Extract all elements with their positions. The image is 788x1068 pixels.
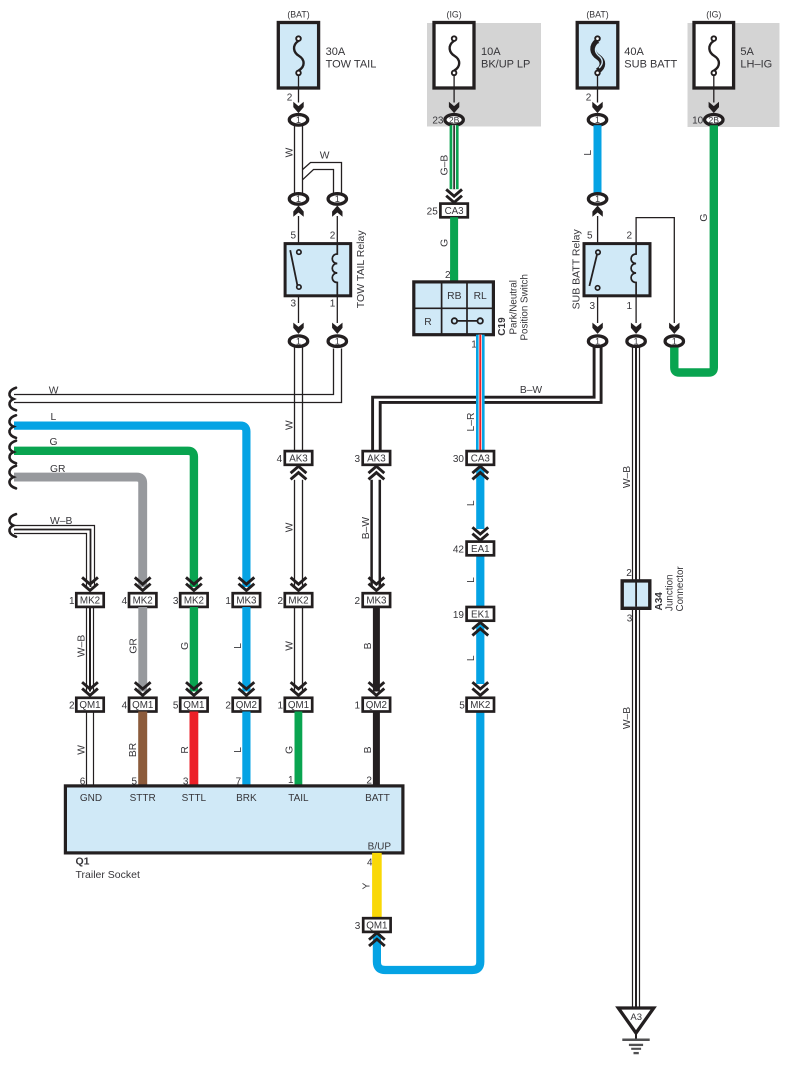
svg-text:1: 1 <box>296 115 301 125</box>
connector MK2 col2 <box>129 593 156 607</box>
svg-text:BK/UP LP: BK/UP LP <box>481 59 530 71</box>
connector QM1 col1 <box>76 698 103 712</box>
chevron up below CA3 30 <box>472 466 488 479</box>
svg-text:A34: A34 <box>654 592 665 611</box>
wire fuse 5A to connector <box>713 75 715 103</box>
svg-text:B/UP: B/UP <box>368 842 392 853</box>
svg-text:1: 1 <box>277 701 283 712</box>
svg-text:1: 1 <box>225 596 231 607</box>
svg-text:3: 3 <box>589 301 595 312</box>
break symbol L <box>9 415 16 438</box>
svg-text:L–R: L–R <box>466 413 477 432</box>
svg-text:QM1: QM1 <box>132 700 153 711</box>
svg-text:GND: GND <box>80 793 102 804</box>
svg-text:SUB BATT: SUB BATT <box>624 59 677 71</box>
connector CA3 pin 30 <box>467 451 494 465</box>
wire L MK3 to QM2 col4 <box>242 607 250 692</box>
svg-text:2: 2 <box>225 701 231 712</box>
svg-text:BR: BR <box>128 743 139 757</box>
svg-text:1: 1 <box>672 336 677 346</box>
svg-text:EA1: EA1 <box>471 544 490 555</box>
svg-text:3: 3 <box>355 454 361 465</box>
chevron into QM1 4 <box>135 682 151 695</box>
wire G-B fuse 10A to connector CA3 <box>450 125 459 189</box>
svg-text:EK1: EK1 <box>471 609 490 620</box>
svg-text:RB: RB <box>447 291 461 302</box>
wire G connector CA3 to park/neutral switch <box>450 217 458 282</box>
svg-text:3: 3 <box>290 299 296 310</box>
svg-text:L: L <box>466 500 477 506</box>
fuse 40A SUB BATT <box>577 23 618 89</box>
connector QM2 col4 <box>233 698 260 712</box>
svg-text:B: B <box>363 746 374 753</box>
svg-text:1: 1 <box>330 299 336 310</box>
wire relay pin 2 lead <box>336 216 338 244</box>
wire sub batt relay pin 5 lead <box>597 216 599 244</box>
svg-text:1: 1 <box>69 596 75 607</box>
chevron up below AK3 4 <box>291 466 307 479</box>
chevron into MK2 3 <box>186 577 202 590</box>
wire G fuse 5A to oval 1 <box>674 125 714 372</box>
wire G MK2 to QM1 col3 <box>190 607 198 692</box>
svg-text:G: G <box>440 239 451 247</box>
label Junction Connector <box>665 566 686 612</box>
connector oval 1 sub batt relay pin 5 <box>588 194 606 205</box>
relay TOW TAIL Relay <box>285 244 351 296</box>
arrow up into oval pin 2 tow tail relay <box>332 206 342 217</box>
svg-text:1: 1 <box>595 336 600 346</box>
svg-text:1: 1 <box>595 194 600 204</box>
wire sub batt relay pin 2 loop <box>636 218 674 323</box>
value label 10A BK/UP LP <box>481 46 530 71</box>
svg-text:MK2: MK2 <box>133 596 153 607</box>
svg-text:GR: GR <box>129 638 140 653</box>
value label 5A LH-IG <box>740 46 772 71</box>
connector MK3 col4 <box>233 593 260 607</box>
svg-text:25: 25 <box>427 206 439 217</box>
wire W QM1 to socket GND <box>87 712 94 787</box>
svg-text:3: 3 <box>173 596 179 607</box>
arrow into connector 1 <box>592 102 602 113</box>
connector QM2 col6 <box>363 698 390 712</box>
wire W AK3 to MK2 col5 <box>295 480 303 587</box>
wire W-B MK2 to QM1 col1 <box>87 607 94 692</box>
connector MK2 col7 <box>467 698 494 712</box>
value label 40A SUB BATT <box>624 46 677 71</box>
svg-text:QM2: QM2 <box>236 700 257 711</box>
svg-text:AK3: AK3 <box>367 453 386 464</box>
svg-text:QM1: QM1 <box>79 700 100 711</box>
wire L CA3 to EA1 <box>476 468 484 529</box>
svg-text:CA3: CA3 <box>445 206 465 217</box>
wire L fuse 40A to relay <box>594 125 602 193</box>
switch C19 Park/Neutral Position Switch <box>414 282 494 335</box>
svg-text:2: 2 <box>445 270 451 281</box>
chevron into EA1 <box>472 527 488 540</box>
wire W-B harness to MK2 <box>14 526 95 588</box>
svg-text:MK2: MK2 <box>470 700 490 711</box>
svg-text:4: 4 <box>277 454 283 465</box>
svg-text:1: 1 <box>335 194 340 204</box>
break symbol W-B <box>9 514 16 537</box>
connector oval 1 below fuse 30A <box>289 115 307 126</box>
connector MK2 col5 <box>285 593 312 607</box>
svg-text:W: W <box>49 386 59 397</box>
wire fuse 30A to connector <box>298 75 300 103</box>
value label 30A TOW TAIL <box>326 46 377 71</box>
svg-text:1: 1 <box>595 115 600 125</box>
svg-text:W–B: W–B <box>622 707 633 729</box>
svg-text:(IG): (IG) <box>447 10 462 20</box>
svg-text:2: 2 <box>355 596 361 607</box>
connector oval 1 relay pin 5 <box>289 194 307 205</box>
svg-text:2: 2 <box>626 231 632 242</box>
svg-text:5A: 5A <box>740 46 754 58</box>
svg-text:1: 1 <box>335 336 340 346</box>
wire GR harness to MK2 <box>14 477 143 587</box>
arrow up into oval pin 5 tow tail relay <box>293 206 303 217</box>
svg-text:2B: 2B <box>449 115 460 125</box>
svg-text:STTR: STTR <box>130 793 156 804</box>
connector oval 1 G branch <box>665 336 683 347</box>
chevron into MK2 2 <box>291 577 307 590</box>
break symbol G <box>9 441 16 464</box>
wire L EK1 to MK2 <box>476 624 484 684</box>
svg-text:W: W <box>285 522 296 532</box>
wire B-W sub batt pin 3 to AK3 <box>373 347 601 452</box>
svg-text:R: R <box>424 317 431 328</box>
svg-text:L: L <box>233 747 244 753</box>
svg-text:30A: 30A <box>326 46 346 58</box>
svg-text:2: 2 <box>586 92 592 103</box>
svg-text:BRK: BRK <box>236 793 257 804</box>
svg-text:10A: 10A <box>481 46 501 58</box>
chevron into MK2 1 <box>82 577 98 590</box>
connector AK3 pin 3 <box>363 451 390 465</box>
svg-text:1: 1 <box>296 336 301 346</box>
svg-text:3: 3 <box>355 921 361 932</box>
svg-text:Trailer Socket: Trailer Socket <box>76 869 140 881</box>
wire Y socket B/UP to QM1 3 <box>372 853 382 918</box>
chevron into MK2 5 <box>472 682 488 695</box>
wire L QM2 to socket BRK <box>242 712 250 787</box>
svg-text:5: 5 <box>290 231 296 242</box>
svg-text:2: 2 <box>626 568 632 579</box>
fuse 30A TOW TAIL <box>278 23 318 89</box>
arrow down into oval node G <box>669 323 679 334</box>
wire L harness to MK3 <box>14 426 246 587</box>
svg-text:B: B <box>363 642 374 649</box>
trailer socket Q1 <box>65 786 403 853</box>
arrow down into oval pin 3 <box>293 323 303 334</box>
svg-text:MK2: MK2 <box>80 596 100 607</box>
ground symbol bars <box>622 1040 649 1053</box>
connector QM1 col3 <box>180 698 207 712</box>
connector oval 1 sub batt pin 3 <box>588 336 606 347</box>
wire W harness to tow tail pin 1 <box>14 349 342 403</box>
wire G harness to MK2 <box>14 451 194 587</box>
svg-text:Park/Neutral: Park/Neutral <box>509 280 520 334</box>
svg-text:(IG): (IG) <box>706 10 721 20</box>
svg-text:W: W <box>320 151 330 162</box>
connector oval 2B of BK/UP LP <box>445 115 463 126</box>
arrow up into oval pin 5 sub batt relay <box>592 206 602 217</box>
svg-text:1: 1 <box>634 336 639 346</box>
svg-text:W–B: W–B <box>77 635 88 657</box>
ground A3 <box>618 1008 653 1040</box>
wire W branch to relay pin 2 <box>303 163 342 195</box>
connector oval 1 tow tail pin 3 <box>289 336 307 347</box>
svg-text:W: W <box>285 641 296 651</box>
junction connector A34 <box>622 581 650 608</box>
svg-text:L: L <box>583 150 594 156</box>
svg-text:4: 4 <box>122 701 128 712</box>
connector QM1 col2 <box>129 698 156 712</box>
arrow into connector 1 <box>293 102 303 113</box>
svg-text:23: 23 <box>432 115 444 126</box>
arrow down into oval sub batt pin 3 <box>592 323 602 334</box>
wire sub batt pin 1 lead <box>635 297 637 324</box>
svg-text:MK3: MK3 <box>366 596 387 607</box>
svg-text:3: 3 <box>627 614 633 625</box>
connector oval 2B of LH-IG <box>705 115 723 126</box>
svg-text:G: G <box>699 214 710 222</box>
arrow down into oval pin 1 <box>332 323 342 334</box>
svg-text:MK3: MK3 <box>236 596 257 607</box>
chevron into MK2 4 <box>135 577 151 590</box>
svg-text:Connector: Connector <box>675 566 686 612</box>
svg-text:(BAT): (BAT) <box>287 10 309 20</box>
svg-text:19: 19 <box>453 610 465 621</box>
svg-text:40A: 40A <box>624 46 644 58</box>
chevron into QM2 1 <box>369 682 385 695</box>
wire relay pin 3 lead <box>298 297 300 324</box>
svg-text:5: 5 <box>173 701 179 712</box>
svg-text:B–W: B–W <box>520 385 543 396</box>
svg-text:G–B: G–B <box>439 155 450 176</box>
connector CA3 pin 25 <box>440 204 467 218</box>
svg-text:G: G <box>180 642 191 650</box>
connector oval 1 tow tail pin 1 <box>328 336 346 347</box>
connector AK3 pin 4 <box>285 451 312 465</box>
chevron into QM1 1 <box>291 682 307 695</box>
svg-text:2: 2 <box>69 701 75 712</box>
chevron into MK3 1 <box>239 577 255 590</box>
wire L-R C19 pin 1 to connector CA3 30 <box>476 335 485 452</box>
svg-text:L: L <box>51 412 57 423</box>
wire W-B A34 to ground <box>633 608 640 1008</box>
svg-text:G: G <box>285 746 296 754</box>
wire W-B sub batt pin 1 to A34 <box>633 348 640 582</box>
chevron into CA3 25 <box>446 189 462 202</box>
shaded background IG fuse BK/UP LP <box>427 23 541 127</box>
wire L EA1 to EK1 <box>476 555 484 607</box>
svg-text:Position Switch: Position Switch <box>520 274 531 340</box>
shaded background IG fuse LH-IG <box>688 23 780 127</box>
svg-text:STTL: STTL <box>182 793 207 804</box>
svg-text:L: L <box>466 577 477 583</box>
chevron into QM1 5 <box>186 682 202 695</box>
svg-text:B–W: B–W <box>361 517 372 540</box>
wire W MK2 to QM1 col5 <box>295 607 303 692</box>
connector oval 1 relay pin 2 <box>328 194 346 205</box>
svg-text:(BAT): (BAT) <box>586 10 608 20</box>
svg-text:L: L <box>466 655 477 661</box>
svg-text:RL: RL <box>474 291 487 302</box>
svg-text:2B: 2B <box>709 115 720 125</box>
svg-text:G: G <box>50 437 58 448</box>
svg-text:W–B: W–B <box>50 516 72 527</box>
svg-text:W: W <box>77 745 88 755</box>
svg-text:BATT: BATT <box>365 793 390 804</box>
chevron into QM1 2 <box>82 682 98 695</box>
connector MK2 col3 <box>180 593 207 607</box>
chevron up below QM1 bottom <box>369 933 385 946</box>
svg-text:30: 30 <box>453 454 465 465</box>
arrow down into oval sub batt pin 1 <box>631 323 641 334</box>
svg-text:10: 10 <box>692 115 704 126</box>
relay SUB BATT Relay <box>584 244 650 296</box>
connector oval 1 sub batt pin 1 <box>627 336 645 347</box>
wire sub batt pin 3 lead <box>597 297 599 324</box>
wire G into C19 pin 2 <box>450 270 458 283</box>
connector EA1 pin 42 <box>467 542 494 556</box>
arrow into connector 2B <box>709 102 719 113</box>
svg-text:LH–IG: LH–IG <box>740 59 772 71</box>
wire G QM1 to socket TAIL <box>295 712 303 787</box>
svg-text:TOW TAIL Relay: TOW TAIL Relay <box>355 230 367 309</box>
wire B MK3 to QM2 col6 <box>373 607 380 692</box>
svg-text:1: 1 <box>296 194 301 204</box>
wire B-W AK3 to MK3 col6 <box>372 480 380 587</box>
svg-text:MK2: MK2 <box>184 596 204 607</box>
label Park/Neutral Position Switch <box>509 274 531 340</box>
break symbol W <box>9 388 16 411</box>
svg-text:MK2: MK2 <box>288 596 308 607</box>
wire L MK2 5 to QM1 3 return <box>377 711 480 970</box>
svg-text:5: 5 <box>587 231 593 242</box>
svg-text:QM1: QM1 <box>288 700 309 711</box>
break symbol GR <box>9 466 16 489</box>
svg-text:2: 2 <box>287 92 293 103</box>
svg-text:Q1: Q1 <box>76 856 90 868</box>
wire B QM2 to socket BATT <box>373 712 380 787</box>
svg-text:1: 1 <box>626 301 632 312</box>
svg-text:TOW TAIL: TOW TAIL <box>326 59 377 71</box>
svg-text:W: W <box>285 147 296 157</box>
wire relay pin 1 lead <box>336 297 338 324</box>
svg-text:QM1: QM1 <box>183 700 204 711</box>
svg-text:TAIL: TAIL <box>288 793 309 804</box>
svg-text:QM2: QM2 <box>366 700 387 711</box>
connector oval 1 below fuse 40A <box>588 115 606 126</box>
wire R QM1 to socket STTL <box>190 712 199 787</box>
svg-text:R: R <box>180 746 191 753</box>
svg-text:1: 1 <box>355 701 361 712</box>
svg-text:2: 2 <box>277 596 283 607</box>
svg-text:W: W <box>285 420 296 430</box>
svg-text:Junction: Junction <box>665 574 676 611</box>
svg-text:42: 42 <box>453 545 465 556</box>
svg-text:W–B: W–B <box>622 466 633 488</box>
svg-text:AK3: AK3 <box>289 453 308 464</box>
chevron into MK3 2 <box>369 577 385 590</box>
wire GR MK2 to QM1 col2 <box>138 607 147 692</box>
svg-text:CA3: CA3 <box>471 453 491 464</box>
svg-text:5: 5 <box>459 701 465 712</box>
chevron up below EK1 <box>472 622 488 635</box>
svg-text:GR: GR <box>50 464 65 475</box>
fuse 5A LH-IG <box>694 23 734 89</box>
connector QM1 col5 <box>285 698 312 712</box>
connector MK3 col6 <box>363 593 390 607</box>
svg-text:SUB BATT Relay: SUB BATT Relay <box>571 228 583 309</box>
svg-text:L: L <box>233 643 244 649</box>
svg-text:QM1: QM1 <box>366 921 387 932</box>
wire fuse 10A to connector <box>453 75 455 103</box>
connector MK2 col1 <box>76 593 103 607</box>
svg-text:C19: C19 <box>497 317 508 336</box>
chevron into QM2 2 <box>239 682 255 695</box>
svg-text:A3: A3 <box>630 1012 642 1023</box>
wire W tow tail pin 3 to AK3 <box>295 348 303 452</box>
connector QM1 bottom <box>363 918 390 932</box>
connector EK1 pin 19 <box>467 607 494 621</box>
wire relay pin 5 lead <box>298 216 300 244</box>
wire W fuse 30A to relay pin 5 <box>295 125 303 194</box>
wire BR QM1 to socket STTR <box>138 712 147 787</box>
svg-text:2: 2 <box>330 231 336 242</box>
arrow into connector 2B <box>449 102 459 113</box>
svg-text:Y: Y <box>362 882 373 889</box>
chevron up below AK3 3 <box>369 466 385 479</box>
svg-text:4: 4 <box>122 596 128 607</box>
wire fuse 40A to connector <box>597 75 599 103</box>
fuse 10A BK/UP LP <box>434 23 474 89</box>
